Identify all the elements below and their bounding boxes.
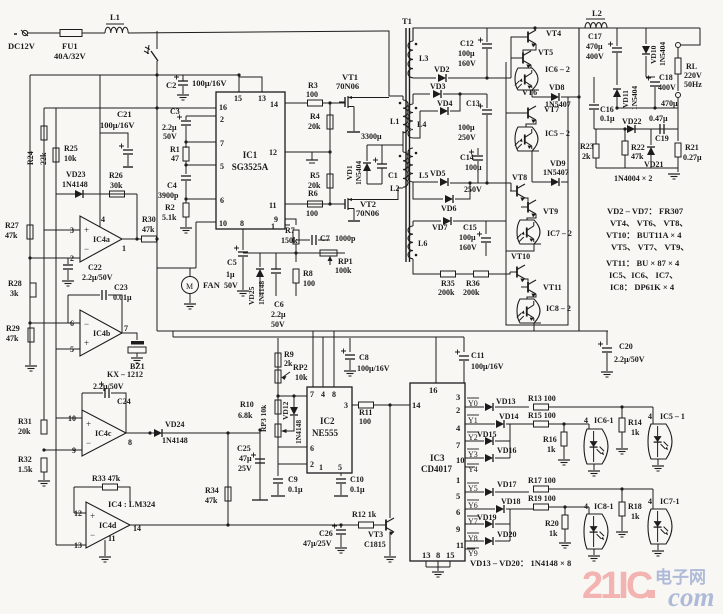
label watermark dot [648, 590, 655, 598]
wire Y0 out [465, 406, 484, 408]
svg-text:VD13 – VD20： 1N4148 × 8: VD13 – VD20： 1N4148 × 8 [470, 558, 571, 568]
svg-text:VT11: VT11 [543, 283, 562, 292]
wire C2 top [182, 75, 184, 81]
svg-text:R27: R27 [5, 221, 19, 230]
wire L3 bottom to VD2 [413, 77, 436, 79]
wire R2 down [185, 217, 187, 227]
svg-text:L2: L2 [390, 184, 399, 193]
wire pin11 out [285, 203, 345, 205]
wire VD7 out [453, 220, 506, 222]
svg-text:9: 9 [72, 446, 76, 455]
op-amp IC1 SG3525A box [216, 92, 285, 229]
svg-text:R4: R4 [310, 112, 320, 121]
wire pin10 down [195, 222, 197, 268]
diode VD17 [485, 488, 493, 496]
label Y3 [467, 449, 479, 459]
optocoupler IC6-2 [515, 68, 538, 90]
svg-text:R18: R18 [628, 502, 642, 511]
junction loop rail [237, 73, 240, 76]
capacitor C23 [102, 290, 106, 300]
wire C3 down [185, 126, 187, 142]
wire VT5 emitter down [530, 65, 532, 68]
svg-text:4: 4 [648, 412, 652, 421]
wire bottom join [426, 566, 450, 568]
wire VT8-VT9 [525, 198, 528, 201]
capacitor C5 [234, 246, 248, 257]
svg-text:VD8: VD8 [549, 83, 565, 92]
svg-text:IC8-1: IC8-1 [594, 502, 614, 511]
svg-text:L5: L5 [419, 171, 428, 180]
svg-text:DC12V: DC12V [8, 41, 36, 51]
optocoupler IC8-1 [584, 514, 608, 549]
svg-text:IC8 – 2: IC8 – 2 [546, 304, 571, 313]
wire Y3 out [465, 457, 484, 459]
svg-text:VD4: VD4 [437, 99, 453, 108]
wire L6 bottom to R35 [413, 259, 440, 274]
wire group2 down [531, 151, 533, 182]
junction R4 top [328, 101, 331, 104]
wire C15 down [485, 243, 487, 256]
wire VD4 out [450, 94, 460, 111]
wire C1 top [381, 145, 383, 164]
capacitor C1 [373, 158, 387, 169]
wire C23 row [68, 294, 100, 296]
svg-text:IC1: IC1 [243, 150, 258, 160]
svg-text:R1: R1 [170, 145, 180, 154]
resistor R36 [474, 271, 489, 277]
wire VD1 down [366, 171, 368, 184]
junction feedback [135, 237, 138, 240]
svg-text:+: + [84, 338, 89, 348]
wire pin12 out [285, 151, 330, 153]
svg-text:1N4148: 1N4148 [62, 180, 88, 189]
svg-text:R23: R23 [580, 142, 594, 151]
wire left bus R27 chain [29, 75, 31, 365]
wire to BZ1 [122, 333, 137, 340]
wire VD12 stub [293, 396, 295, 407]
wire C23 right [108, 295, 122, 333]
wire Y4 stub [465, 466, 475, 468]
wire group4 down [533, 323, 535, 331]
svg-text:com: com [668, 582, 715, 612]
wire VD20 join [495, 540, 510, 542]
svg-text:2k: 2k [284, 359, 293, 368]
svg-text:C21: C21 [117, 109, 132, 119]
svg-text:SG3525A: SG3525A [232, 162, 269, 172]
ground R32 [38, 481, 50, 486]
svg-text:L4: L4 [417, 120, 426, 129]
switch S [144, 45, 158, 61]
wire R4 column [329, 103, 331, 152]
svg-text:NE555: NE555 [312, 428, 339, 438]
svg-text:IC3: IC3 [430, 453, 445, 463]
wire to C22 [67, 258, 69, 264]
svg-text:R22: R22 [631, 143, 645, 152]
resistor R10 [275, 400, 281, 414]
svg-text:47μ: 47μ [239, 454, 252, 463]
wire C12 down [486, 49, 488, 78]
wire VT1 source down [353, 107, 355, 132]
node T1 polarity dots [399, 43, 418, 257]
wire C7 left [296, 239, 310, 241]
junction switch rail [155, 73, 158, 76]
wire VD10 to C18 [646, 76, 655, 78]
wire mid rail A [157, 330, 608, 332]
transistor VT7 [521, 106, 536, 123]
wire VT10-VT11 [525, 279, 528, 281]
svg-text:IC2: IC2 [320, 416, 335, 426]
svg-text:1N5407: 1N5407 [543, 168, 569, 177]
svg-text:1N4148: 1N4148 [294, 420, 303, 444]
svg-text:R7: R7 [285, 226, 295, 235]
svg-text:25V: 25V [238, 464, 252, 473]
wire Y9 stub [465, 548, 475, 550]
wire VD10 down [645, 56, 647, 77]
svg-text:16: 16 [429, 385, 438, 395]
wire C13 down [486, 115, 488, 183]
svg-text:VD25: VD25 [247, 286, 256, 305]
wire VD11 down [616, 97, 618, 108]
capacitor C22 [63, 265, 73, 269]
svg-text:50V: 50V [271, 320, 285, 329]
label Y8 [467, 533, 479, 543]
svg-text:R29: R29 [6, 324, 20, 333]
transistor VT10 [510, 265, 525, 282]
diode VD10 [642, 46, 650, 54]
wire VT7 emitter [526, 120, 536, 127]
wire VD8 to bus [561, 96, 579, 98]
wire R8 down [295, 283, 297, 296]
svg-text:47: 47 [171, 154, 179, 163]
ground R20 [559, 543, 571, 548]
ground C20 [601, 372, 613, 377]
svg-text:10k: 10k [64, 154, 77, 163]
op-amp IC4a [80, 216, 122, 262]
fuse FU1 [60, 30, 82, 37]
svg-text:VD24: VD24 [165, 420, 185, 429]
svg-text:100: 100 [359, 417, 371, 426]
svg-text:R3: R3 [308, 81, 318, 90]
capacitor C16 [589, 105, 599, 109]
wire R13 row [549, 406, 653, 408]
svg-text:C1: C1 [388, 171, 398, 180]
capacitor C19 [660, 124, 664, 134]
ground R16 [558, 460, 570, 465]
svg-text:C10: C10 [350, 475, 364, 484]
svg-text:VT3: VT3 [368, 530, 383, 539]
inductor T1 secondary L3 [408, 41, 413, 78]
resistor R5 [327, 174, 333, 188]
junction VT4 rail [533, 26, 536, 29]
op-amp IC4b [80, 310, 122, 356]
svg-text:VD6: VD6 [441, 204, 457, 213]
svg-text:C24: C24 [117, 397, 131, 406]
wire IC1 pin5 [186, 164, 216, 166]
wire tap VT5 base [511, 57, 516, 59]
svg-text:R10: R10 [240, 400, 254, 409]
svg-text:VD7: VD7 [432, 223, 448, 232]
wire FAN row [157, 267, 196, 269]
wire R3 to VT1 [323, 102, 345, 104]
wire VT1 drain to rail [354, 97, 389, 99]
junction R31 R32 [42, 448, 45, 451]
svg-text:VD18: VD18 [501, 497, 521, 506]
junction R34 top [226, 431, 229, 434]
wire R22 top [624, 129, 626, 141]
diode VD1 [363, 163, 371, 171]
transistor VT5 [516, 51, 531, 68]
wire IC8-1 top [588, 507, 590, 514]
resistor R6 [308, 201, 323, 207]
capacitor C17 [608, 42, 622, 53]
svg-text:3: 3 [70, 226, 74, 235]
svg-text:2.2μ/50V: 2.2μ/50V [82, 273, 113, 282]
svg-text:C13: C13 [466, 99, 480, 108]
wire vd17 row [495, 491, 529, 493]
wire IC4a pin2 [30, 257, 80, 259]
resistor R18 [619, 502, 625, 516]
optocoupler IC8-2 [517, 299, 540, 323]
wire rail to RL [681, 28, 700, 45]
svg-text:VT7: VT7 [544, 105, 559, 114]
resistor R22 [622, 141, 628, 155]
svg-text:IC4c: IC4c [95, 429, 112, 438]
wire IC4c out row [126, 432, 260, 434]
wire IC4b pin5 [56, 348, 80, 350]
diode VD9 [551, 178, 559, 186]
svg-text:VT4、 VT6、 VT8、: VT4、 VT6、 VT8、 [610, 218, 688, 228]
ground C26 [335, 548, 347, 553]
svg-text:100μ: 100μ [465, 163, 482, 172]
svg-text:RP2: RP2 [293, 363, 308, 372]
wire pin16 row [44, 107, 216, 109]
svg-text:200k: 200k [438, 288, 455, 297]
diode VD5 [440, 178, 448, 186]
diode VD14 [496, 420, 504, 428]
counter IC3 CD4017 box [410, 383, 465, 561]
svg-text:IC4d: IC4d [99, 521, 117, 530]
wire VD12 top row [278, 395, 307, 397]
svg-text:13: 13 [74, 541, 82, 550]
resistor R9 [275, 353, 281, 367]
resistor R13 [534, 404, 549, 410]
svg-text:70N06: 70N06 [356, 208, 379, 218]
wire IC4c pin10 [56, 417, 82, 419]
svg-text:6: 6 [456, 507, 460, 517]
inductor T1 primary L2 [403, 152, 408, 187]
capacitor C2 [174, 75, 188, 86]
wire VT11 emitter [527, 294, 536, 299]
svg-text:2.2μ: 2.2μ [162, 123, 177, 132]
junction VT3 R11 [388, 403, 391, 406]
svg-text:2: 2 [456, 405, 460, 415]
resistor R32 [41, 458, 47, 472]
svg-text:C2: C2 [166, 80, 176, 90]
wire VT6 bar [525, 89, 539, 91]
wire R20 down [564, 529, 566, 542]
svg-text:VD13: VD13 [496, 397, 516, 406]
svg-text:16: 16 [219, 103, 227, 112]
svg-text:R6: R6 [308, 189, 318, 198]
svg-text:50V: 50V [224, 281, 238, 290]
resistor R33 [103, 484, 118, 490]
wire R14 down [621, 432, 623, 448]
wire C17 down [616, 53, 618, 85]
svg-text:9: 9 [456, 524, 460, 534]
svg-text:7: 7 [124, 324, 128, 333]
svg-text:VD3: VD3 [430, 82, 446, 91]
wire C24 left [81, 393, 83, 410]
wire R2 top [185, 199, 187, 203]
wire pin4 up [322, 337, 324, 387]
svg-text:KX – 1212: KX – 1212 [107, 370, 143, 379]
resistor R27 [27, 225, 33, 239]
svg-text:C11: C11 [471, 351, 484, 360]
wire VD6 out [455, 183, 470, 199]
junction VD12 top [292, 394, 295, 397]
wire C6 down [275, 274, 277, 296]
svg-text:R5: R5 [310, 171, 320, 180]
wire C11 top [463, 337, 465, 352]
svg-text:R21: R21 [685, 143, 699, 152]
svg-text:2: 2 [70, 254, 74, 263]
svg-text:1N5404: 1N5404 [354, 161, 363, 185]
resistor R11 [359, 402, 374, 408]
svg-text:R12 1k: R12 1k [352, 510, 377, 519]
potentiometer RP3 [275, 424, 290, 437]
wire pin9 out [285, 219, 296, 225]
wire L4 bottom [413, 111, 420, 138]
wire pin8 up [333, 331, 335, 387]
svg-text:VD10: VD10 [649, 45, 658, 64]
svg-text:C1815: C1815 [364, 540, 386, 549]
junction R30 rail [155, 237, 158, 240]
diode VD23 [75, 190, 83, 198]
svg-text:470μ: 470μ [661, 99, 678, 108]
svg-text:IC6 – 2: IC6 – 2 [545, 65, 570, 74]
wire IC4c pin9 [44, 449, 82, 451]
svg-text:20k: 20k [18, 427, 31, 436]
svg-text:C15: C15 [463, 223, 477, 232]
wire C24 right [111, 393, 126, 433]
wire L1 top lead [402, 96, 404, 100]
wire C10 down [340, 484, 342, 495]
junction R20 [563, 505, 566, 508]
resistor R2 [183, 203, 189, 217]
svg-text:RL: RL [686, 62, 697, 71]
svg-text:1: 1 [319, 463, 323, 472]
resistor R1 [183, 147, 189, 161]
wire VT2 source [353, 209, 355, 221]
transistor VT3 [379, 518, 394, 535]
wire L4 top to VD3 [413, 93, 430, 95]
wire output stage box [506, 62, 568, 325]
wire VD4 in [420, 110, 438, 112]
svg-text:L2: L2 [592, 8, 602, 18]
resistor R24 [41, 126, 47, 140]
diode VD2 [438, 74, 446, 82]
wire VT2 drain to L2 [354, 188, 403, 200]
svg-text:220V: 220V [684, 71, 702, 80]
svg-text:4: 4 [584, 416, 588, 425]
optocoupler IC5-1 [648, 424, 672, 459]
wire IC1 pin6 [186, 198, 216, 200]
svg-text:VT10： BUT11A × 4: VT10： BUT11A × 4 [606, 230, 682, 240]
capacitor C24 [99, 382, 109, 399]
junction C26 [339, 523, 342, 526]
wire switch down to rail [156, 61, 158, 331]
svg-text:10: 10 [219, 219, 227, 228]
junction R4 R5 [328, 150, 331, 153]
svg-text:C8: C8 [359, 353, 369, 362]
svg-text:VD14: VD14 [499, 412, 519, 421]
transistor VT2 70N06 [339, 198, 354, 210]
label Y7 [467, 516, 479, 526]
svg-text:50Hz: 50Hz [684, 80, 702, 89]
wire +12V sub rail [30, 74, 239, 76]
svg-text:C3: C3 [170, 107, 180, 116]
wire IC5-2 bar [525, 150, 539, 152]
wire node row mid [243, 252, 345, 254]
capacitor C12 [478, 38, 492, 49]
wire C14 down [477, 161, 479, 183]
ground FAN [184, 304, 196, 309]
svg-text:−: − [86, 438, 91, 448]
wire R33 left [73, 487, 75, 513]
svg-text:Y8: Y8 [468, 534, 478, 543]
svg-text:R20: R20 [545, 519, 559, 528]
wire R9 column [277, 338, 279, 438]
svg-text:VT8: VT8 [512, 173, 527, 182]
svg-text:6: 6 [310, 444, 314, 453]
svg-text:C26: C26 [319, 529, 333, 538]
wire VT9 emitter [527, 214, 536, 220]
junction pin6 [184, 197, 187, 200]
wire feedback VD23 row [56, 193, 137, 195]
wire R20 top [564, 507, 566, 515]
svg-text:IC7-1: IC7-1 [660, 497, 680, 506]
svg-text:C4: C4 [167, 181, 177, 190]
wire pin15-13 loop [239, 77, 262, 92]
svg-text:C16: C16 [600, 105, 614, 114]
diode VD24 [154, 429, 162, 437]
potentiometer RP2 [275, 370, 290, 383]
wire VD1 top [366, 145, 368, 161]
svg-text:2.2μ/50V: 2.2μ/50V [93, 382, 124, 391]
wire lower gnd row [596, 167, 678, 169]
wire C2 down [182, 86, 184, 94]
wire R33 row a [74, 486, 102, 488]
svg-text:R14: R14 [628, 418, 642, 427]
wire to VD8 [532, 96, 551, 98]
svg-text:470μ: 470μ [586, 42, 603, 51]
wire IC8-1 down [593, 549, 595, 555]
wire FAN down [189, 293, 191, 303]
wire Y5 out [465, 491, 484, 493]
junction R18 [620, 487, 623, 490]
svg-text:10: 10 [456, 455, 465, 465]
wire R30 to rail [156, 238, 157, 240]
svg-text:0.27μ: 0.27μ [683, 153, 702, 162]
wire VD2 to VT4 base [511, 37, 521, 78]
svg-text:L3: L3 [419, 54, 428, 63]
svg-text:IC4 : LM324: IC4 : LM324 [108, 499, 156, 509]
label Y6 [467, 500, 479, 510]
wire input to FU1 [28, 32, 60, 34]
wire L4 top stub [412, 94, 414, 104]
wire IC1 pin7 [186, 141, 216, 143]
ground IC5-1 [652, 466, 664, 471]
